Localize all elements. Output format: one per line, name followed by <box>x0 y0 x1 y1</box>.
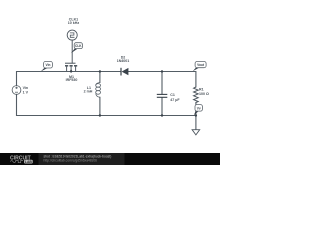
wire CLK stem <box>71 40 73 63</box>
svg-text:http://circuitlab.com/c/gd5n6x: http://circuitlab.com/c/gd5n6xa48z06 <box>44 159 98 163</box>
svg-text:1 V: 1 V <box>23 90 29 94</box>
node R1 bottom <box>195 114 197 116</box>
svg-text:R1: R1 <box>199 87 204 91</box>
diode D2 <box>121 68 128 76</box>
wire left riser bottom <box>17 94 101 115</box>
footer logo waveform <box>10 161 23 163</box>
svg-text:Vin: Vin <box>46 63 51 67</box>
label CLK1 value <box>68 17 80 25</box>
label M1 value <box>66 75 78 82</box>
ground <box>192 130 200 135</box>
net flag Vv probe <box>194 105 203 116</box>
voltage source Vin <box>12 86 21 95</box>
mosfet M1 <box>65 63 77 72</box>
node L1 bottom <box>99 114 101 116</box>
wire ground stem <box>195 116 197 130</box>
footer attribution panel <box>39 153 125 165</box>
clock source CLK1 <box>67 30 77 40</box>
svg-text:CLK: CLK <box>75 44 82 48</box>
wire R1 bottom lead <box>195 103 197 116</box>
label L1 value <box>84 86 93 94</box>
capacitor C1 <box>157 94 168 97</box>
wire top rail right <box>129 72 196 88</box>
footer bar <box>0 153 220 165</box>
inductor L1 <box>96 83 101 98</box>
label C1 value <box>170 93 180 102</box>
net flag Vout <box>193 62 206 72</box>
svg-text:1N4001: 1N4001 <box>117 59 130 63</box>
label R1 value <box>199 87 209 96</box>
svg-text:LAB: LAB <box>25 160 33 164</box>
node C1 top <box>161 70 163 72</box>
wire bottom rail right <box>100 115 196 117</box>
svg-text:47 µF: 47 µF <box>170 98 180 102</box>
label D2 value <box>117 56 130 63</box>
svg-text:C1: C1 <box>170 93 175 97</box>
node L1 top <box>99 70 101 72</box>
net flag CLK <box>71 43 83 54</box>
label Vin value <box>23 86 29 94</box>
svg-text:Vv: Vv <box>197 106 201 110</box>
wire top rail left <box>17 72 122 86</box>
svg-text:100 Ω: 100 Ω <box>199 92 209 96</box>
wire C1 leads <box>161 72 163 116</box>
node C1 bottom <box>161 114 163 116</box>
wire L1 leads <box>99 72 101 116</box>
net flag Vin <box>41 61 53 71</box>
svg-text:Vout: Vout <box>197 63 205 67</box>
svg-text:2 mH: 2 mH <box>84 90 93 94</box>
svg-text:10 kHz: 10 kHz <box>68 21 80 25</box>
svg-text:IRF530: IRF530 <box>66 78 78 82</box>
resistor R1 <box>194 87 199 103</box>
footer logo LAB badge <box>24 160 33 164</box>
